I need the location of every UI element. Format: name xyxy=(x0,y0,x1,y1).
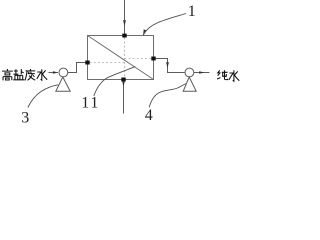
svg-text:1: 1 xyxy=(188,3,196,20)
svg-text:3: 3 xyxy=(21,110,29,125)
svg-text:11: 11 xyxy=(81,95,100,112)
svg-text:4: 4 xyxy=(145,107,153,124)
